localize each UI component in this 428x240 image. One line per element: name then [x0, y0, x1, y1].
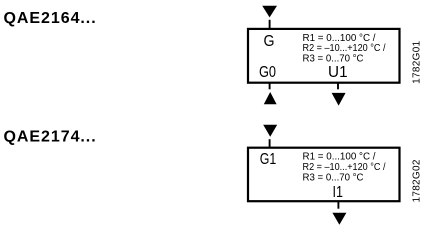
- svg-text:I1: I1: [332, 184, 343, 201]
- svg-text:QAE2174...: QAE2174...: [4, 129, 97, 146]
- arrow down from I1 output: [332, 213, 346, 225]
- svg-text:G1: G1: [260, 151, 277, 168]
- wire below U1 output: [337, 83, 339, 89]
- arrow up toward G0 (return): [264, 92, 277, 104]
- arrow down into G1 terminal: [263, 125, 277, 137]
- wire below I1 output: [337, 202, 339, 209]
- svg-text:QAE2164...: QAE2164...: [4, 10, 97, 27]
- sensor box U1 (QAE2164): [248, 29, 400, 83]
- svg-text:R3 = 0...70 °C: R3 = 0...70 °C: [303, 54, 364, 65]
- sensor box I1 (QAE2174): [248, 148, 400, 202]
- wire top supply into G (U1 device): [269, 20, 271, 29]
- svg-text:R2 = –10...+120 °C /: R2 = –10...+120 °C /: [303, 43, 386, 54]
- svg-text:1782G01: 1782G01: [412, 40, 423, 83]
- svg-text:1782G02: 1782G02: [412, 159, 423, 202]
- arrow down from U1 output: [332, 93, 346, 106]
- svg-text:U1: U1: [328, 64, 348, 81]
- svg-text:G: G: [264, 33, 275, 50]
- svg-text:R2 = –10...+120 °C /: R2 = –10...+120 °C /: [303, 162, 386, 173]
- svg-text:R1 = 0...100 °C /: R1 = 0...100 °C /: [303, 152, 376, 163]
- arrow down into G terminal: [262, 6, 277, 18]
- wire top supply into G1 (I1 device): [269, 139, 271, 147]
- svg-text:G0: G0: [259, 64, 276, 81]
- svg-text:R3 = 0...70 °C: R3 = 0...70 °C: [303, 172, 364, 183]
- wire below G0: [269, 83, 271, 89]
